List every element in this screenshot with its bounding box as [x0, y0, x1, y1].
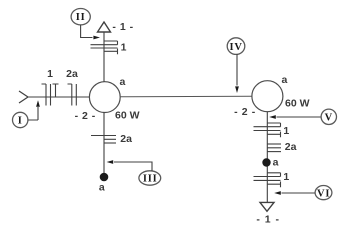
label a (left junction): [99, 182, 105, 194]
label a (right lamp): [282, 74, 288, 86]
svg-text:1: 1: [283, 171, 289, 183]
svg-text:- 1 -: - 1 -: [112, 21, 133, 33]
wire: right drop below right lamp: [266, 112, 268, 203]
label 1 (right drop lower switch): [283, 171, 289, 183]
svg-text:IV: IV: [230, 42, 243, 53]
junction dot a (left): [100, 173, 109, 182]
switch 1 (horizontal run): [42, 84, 59, 106]
callout III: [139, 171, 161, 185]
switch 2a (horizontal run): [68, 84, 77, 106]
svg-text:- 1 -: - 1 -: [256, 214, 280, 226]
callout II: [71, 9, 90, 25]
svg-text:V: V: [325, 112, 333, 123]
label 60 W (left lamp): [115, 110, 140, 122]
switch 1 (right drop upper): [254, 123, 281, 137]
lamp a 60W (right): [252, 81, 283, 112]
svg-text:2a: 2a: [66, 68, 78, 80]
svg-text:III: III: [143, 173, 158, 184]
svg-text:a: a: [273, 156, 279, 168]
svg-text:2a: 2a: [285, 141, 297, 153]
svg-text:60 W: 60 W: [285, 98, 310, 110]
switch 2a (right drop): [267, 144, 281, 152]
svg-text:- 2 -: - 2 -: [234, 106, 256, 118]
switch 2a (left drop): [91, 136, 116, 144]
svg-text:- 2 -: - 2 -: [75, 110, 96, 122]
lamp a 60W (left): [89, 82, 120, 113]
label a (left lamp): [120, 76, 126, 88]
switch 1 (top riser): [91, 41, 118, 54]
arrow from II: [81, 25, 100, 40]
label - 1 - (bottom riser): [256, 214, 280, 226]
arrow from V: [269, 115, 320, 119]
svg-text:VI: VI: [317, 188, 330, 199]
wire: between lamps: [120, 95, 252, 98]
label 2a (left drop switch): [120, 133, 132, 145]
wire: vertical riser above left lamp: [103, 33, 105, 82]
label - 2 - (right lamp circuit): [234, 106, 256, 118]
label 2a (horizontal switch): [66, 68, 78, 80]
svg-text:a: a: [99, 182, 105, 194]
label 1 (horizontal switch): [47, 68, 53, 80]
svg-text:2a: 2a: [120, 133, 132, 145]
svg-text:I: I: [18, 115, 23, 126]
callout VI: [315, 186, 332, 200]
svg-text:a: a: [282, 74, 288, 86]
label - 1 - (top riser): [112, 21, 133, 33]
callout IV: [227, 38, 245, 55]
label 1 (top riser switch): [121, 42, 127, 54]
svg-text:60 W: 60 W: [115, 110, 140, 122]
svg-text:II: II: [76, 12, 86, 23]
arrow from I: [28, 100, 40, 120]
arrow from IV: [235, 54, 239, 93]
feed chevron (incoming supply): [19, 91, 28, 103]
junction dot a (right): [262, 158, 270, 166]
label 1 (right drop upper switch): [283, 125, 289, 137]
riser triangle down: [260, 202, 274, 211]
svg-text:1: 1: [283, 125, 289, 137]
label 2a (right drop switch): [285, 141, 297, 153]
wire: main horizontal left segment: [28, 96, 90, 98]
callout V: [321, 109, 336, 124]
callout I: [13, 112, 28, 127]
svg-text:a: a: [120, 76, 126, 88]
riser triangle up: [98, 22, 111, 32]
arrow from III: [107, 160, 152, 171]
svg-text:1: 1: [121, 42, 127, 54]
switch 1 (right drop lower): [254, 173, 281, 187]
label - 2 - (left lamp circuit): [75, 110, 96, 122]
svg-text:1: 1: [47, 68, 53, 80]
label a (right junction): [273, 156, 279, 168]
wire: left drop below left lamp: [103, 112, 105, 173]
arrow from VI: [274, 191, 315, 195]
label 60 W (right lamp): [285, 98, 310, 110]
